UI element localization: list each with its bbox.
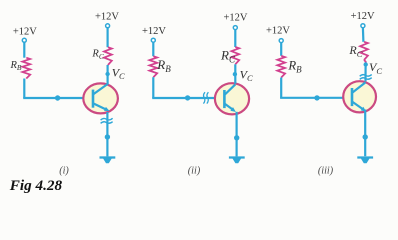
svg-text:+12V: +12V (351, 11, 375, 22)
terminal +12V circuit ii left (151, 38, 155, 42)
terminal +12V circuit i right (106, 24, 110, 28)
svg-text:+12V: +12V (266, 25, 290, 36)
wire collector top (ii) (234, 30, 236, 48)
break marks base (ii) (203, 92, 205, 103)
wire collector top (106, 28, 108, 48)
wire base L (23, 79, 25, 99)
node emitter dot (iii) (363, 134, 368, 139)
terminal +12V circuit i left (22, 38, 26, 42)
node emitter dot (i) (105, 134, 110, 139)
wire base L (ii) (152, 77, 154, 98)
ground (ii) (229, 156, 245, 158)
resistor RC (ii) (231, 47, 239, 64)
resistor RB (ii) (149, 56, 157, 77)
wire (23, 42, 25, 58)
svg-text:(i): (i) (59, 166, 69, 177)
node base wire dot (i) (55, 95, 60, 100)
transistor Q3 (343, 81, 376, 112)
resistor RB (i) (22, 58, 30, 79)
transistor Q1 (83, 83, 118, 113)
wire (280, 43, 282, 56)
svg-text:+12V: +12V (95, 12, 119, 23)
node emitter dot (ii) (234, 135, 239, 140)
break marks collector (iii) (360, 75, 372, 77)
node VC dot (i) (105, 72, 109, 76)
terminal +12V circuit iii left (279, 39, 283, 43)
resistor RC (iii) (360, 42, 368, 60)
resistor RB (iii) (277, 56, 285, 78)
svg-text:(ii): (ii) (188, 166, 201, 177)
wire collector to dot (ii) (234, 64, 236, 84)
wire collector to dot (106, 65, 108, 85)
svg-text:(iii): (iii) (318, 166, 334, 177)
wire (152, 42, 154, 56)
wire VC to collector (iii) (364, 65, 366, 82)
node base wire dot (ii) (185, 95, 190, 100)
node VC dot (iii) (364, 62, 368, 66)
transistor Q2 (215, 83, 249, 114)
terminal +12V circuit iii right (361, 24, 365, 28)
wire emitter down (iii) (364, 110, 366, 157)
svg-text:+12V: +12V (13, 26, 37, 37)
terminal +12V circuit ii right (233, 26, 237, 30)
ground (iii) (357, 156, 373, 158)
resistor RC (i) (104, 47, 112, 65)
wire emitter down (ii) (236, 112, 238, 157)
svg-text:Fig 4.28: Fig 4.28 (9, 177, 63, 194)
wire emitter down (106, 112, 108, 156)
wire kink RC bottom to VC (iii) (364, 60, 366, 65)
node VC dot (ii) (233, 72, 237, 76)
ground (i) (100, 156, 116, 158)
break marks emitter (i) (101, 118, 113, 120)
svg-text:+12V: +12V (142, 26, 166, 37)
node base wire dot (iii) (314, 95, 319, 100)
svg-text:+12V: +12V (223, 13, 247, 24)
wire base L (iii) (280, 78, 282, 98)
wire collector top (iii) (362, 28, 365, 42)
